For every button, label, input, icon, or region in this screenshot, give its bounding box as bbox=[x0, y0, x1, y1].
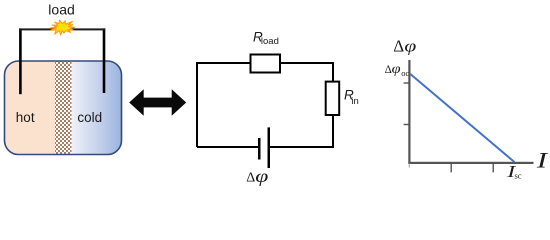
label I (x axis) bbox=[536, 147, 549, 172]
wire left electrode bbox=[19, 28, 22, 94]
svg-text:in: in bbox=[351, 96, 358, 107]
cell box border bbox=[5, 61, 122, 155]
y tick 1 bbox=[404, 82, 410, 83]
membrane checker strip bbox=[55, 61, 72, 155]
svg-text:load: load bbox=[261, 36, 279, 47]
circuit loop wire bbox=[197, 63, 333, 147]
x tick 1 bbox=[451, 163, 452, 172]
x tick 2 bbox=[493, 163, 494, 172]
svg-text:φ: φ bbox=[404, 38, 416, 56]
hot side fill bbox=[5, 61, 56, 155]
label I_sc bbox=[506, 163, 516, 181]
svg-text:I: I bbox=[536, 147, 549, 172]
cell box fills bbox=[5, 61, 122, 155]
svg-text:φ: φ bbox=[392, 62, 401, 76]
load starburst bbox=[50, 20, 75, 35]
svg-text:hot: hot bbox=[16, 110, 35, 125]
svg-text:Δ: Δ bbox=[246, 171, 255, 186]
IV line bbox=[410, 74, 514, 162]
origin faint tick bbox=[409, 164, 410, 168]
equivalence double arrow bbox=[129, 89, 186, 115]
battery short plate bbox=[258, 138, 261, 160]
graph y-axis bbox=[408, 60, 410, 164]
svg-text:φ: φ bbox=[255, 167, 268, 186]
battery long plate bbox=[268, 127, 271, 168]
graph x-axis bbox=[408, 162, 533, 164]
svg-text:Δ: Δ bbox=[393, 36, 404, 55]
resistor R_in bbox=[326, 82, 340, 115]
wire right electrode bbox=[103, 28, 106, 93]
resistor R_load bbox=[251, 55, 281, 73]
svg-text:load: load bbox=[48, 2, 74, 18]
wire top bbox=[19, 28, 105, 30]
svg-text:oc: oc bbox=[401, 68, 409, 78]
y tick 2 bbox=[404, 124, 410, 125]
cold side gradient fill bbox=[72, 61, 122, 155]
svg-text:sc: sc bbox=[515, 171, 522, 181]
svg-text:cold: cold bbox=[77, 110, 102, 125]
